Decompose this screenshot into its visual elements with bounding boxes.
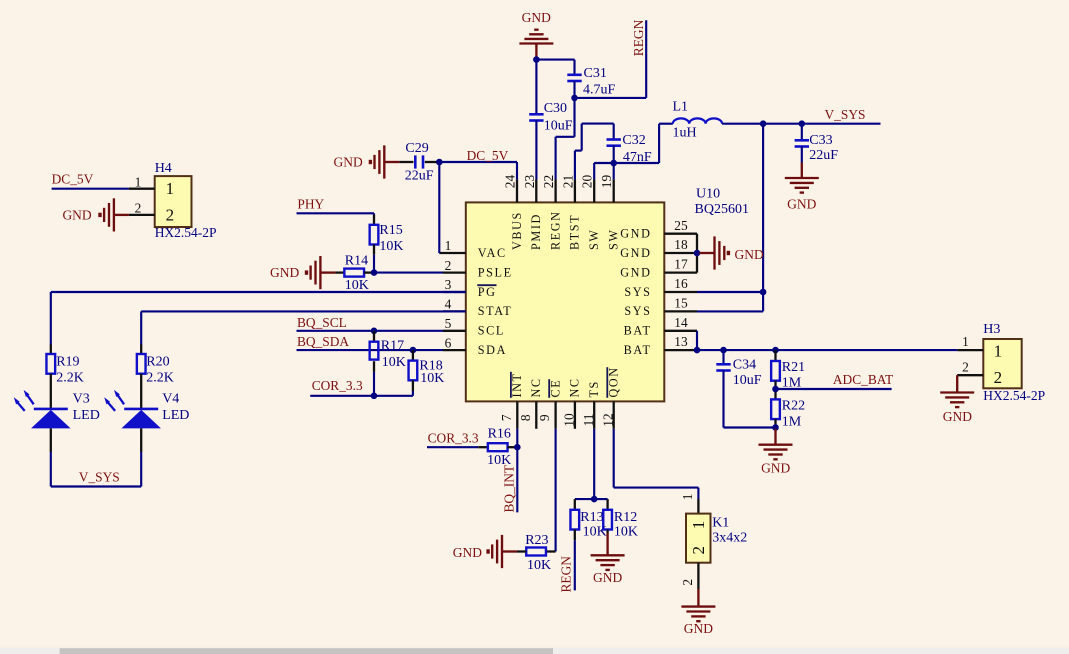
svg-text:GND: GND (943, 409, 972, 424)
svg-text:1: 1 (962, 334, 969, 349)
svg-text:GND: GND (620, 227, 651, 241)
svg-text:HX2.54-2P: HX2.54-2P (155, 225, 217, 240)
svg-text:1uH: 1uH (673, 126, 697, 141)
svg-text:2: 2 (445, 258, 452, 273)
svg-text:R17: R17 (381, 339, 404, 354)
svg-text:R22: R22 (782, 399, 805, 414)
svg-text:BQ_INT: BQ_INT (502, 465, 517, 513)
svg-text:LED: LED (73, 408, 100, 423)
svg-text:19: 19 (599, 175, 614, 189)
svg-text:R13: R13 (580, 510, 603, 525)
svg-text:20: 20 (580, 175, 595, 189)
svg-text:COR_3.3: COR_3.3 (312, 378, 363, 393)
svg-text:10K: 10K (527, 558, 551, 573)
svg-text:GND: GND (453, 545, 482, 560)
svg-text:GND: GND (62, 208, 91, 223)
svg-text:VBUS: VBUS (510, 211, 524, 250)
svg-text:22uF: 22uF (405, 169, 434, 184)
svg-text:2: 2 (680, 579, 695, 586)
svg-text:9: 9 (537, 414, 552, 421)
svg-text:SYS: SYS (624, 304, 651, 318)
svg-text:GND: GND (787, 197, 816, 212)
svg-text:BQ_SDA: BQ_SDA (297, 334, 349, 349)
svg-text:REGN: REGN (559, 556, 574, 593)
svg-text:BQ25601: BQ25601 (695, 202, 749, 217)
svg-text:SCL: SCL (478, 324, 505, 338)
svg-text:H3: H3 (983, 322, 1000, 337)
svg-text:22uF: 22uF (809, 148, 838, 163)
svg-text:DC_5V: DC_5V (467, 148, 509, 163)
svg-text:PSLE: PSLE (478, 265, 513, 279)
svg-text:C33: C33 (809, 133, 832, 148)
svg-text:SW: SW (607, 229, 621, 250)
svg-text:REGN: REGN (548, 210, 562, 250)
svg-text:GND: GND (593, 570, 622, 585)
svg-text:COR_3.3: COR_3.3 (428, 431, 479, 446)
svg-text:PMID: PMID (529, 213, 543, 250)
svg-text:ADC_BAT: ADC_BAT (833, 372, 893, 387)
svg-text:10K: 10K (614, 524, 638, 539)
svg-text:R14: R14 (345, 254, 368, 269)
svg-text:GND: GND (334, 154, 363, 169)
svg-text:24: 24 (503, 175, 518, 189)
svg-text:SYS: SYS (624, 285, 651, 299)
svg-text:R12: R12 (614, 510, 637, 525)
svg-text:2.2K: 2.2K (146, 371, 174, 386)
svg-text:3: 3 (445, 277, 452, 292)
svg-text:QON: QON (607, 366, 621, 397)
svg-text:R15: R15 (379, 223, 402, 238)
svg-text:C29: C29 (405, 141, 428, 156)
svg-text:R23: R23 (525, 533, 548, 548)
svg-text:C34: C34 (733, 357, 756, 372)
svg-text:1: 1 (680, 494, 695, 501)
svg-text:15: 15 (674, 296, 688, 311)
svg-text:14: 14 (674, 315, 688, 330)
svg-text:18: 18 (674, 237, 688, 252)
svg-text:2.2K: 2.2K (56, 371, 84, 386)
svg-text:5: 5 (445, 316, 452, 331)
svg-text:V_SYS: V_SYS (79, 469, 120, 484)
svg-text:GND: GND (620, 246, 651, 260)
svg-text:C30: C30 (544, 101, 567, 116)
svg-text:PHY: PHY (297, 197, 324, 212)
svg-text:1: 1 (135, 174, 142, 189)
svg-text:INT: INT (510, 372, 524, 397)
svg-text:25: 25 (674, 218, 688, 233)
svg-text:LED: LED (162, 408, 189, 423)
svg-text:SDA: SDA (478, 343, 507, 357)
svg-text:VAC: VAC (478, 246, 507, 260)
svg-text:GND: GND (522, 10, 551, 25)
svg-text:11: 11 (581, 414, 596, 427)
svg-text:10K: 10K (345, 278, 369, 293)
svg-text:GND: GND (761, 461, 790, 476)
svg-text:22: 22 (541, 175, 556, 188)
svg-text:10uF: 10uF (544, 119, 573, 134)
svg-text:3x4x2: 3x4x2 (712, 530, 747, 545)
svg-text:2: 2 (962, 360, 969, 375)
svg-text:R19: R19 (56, 354, 79, 369)
svg-text:10K: 10K (420, 371, 444, 386)
svg-text:BAT: BAT (624, 324, 652, 338)
svg-text:C32: C32 (622, 133, 645, 148)
svg-text:4: 4 (445, 297, 452, 312)
svg-text:K1: K1 (712, 516, 729, 531)
svg-text:23: 23 (522, 175, 537, 189)
svg-text:2: 2 (135, 201, 142, 216)
svg-text:10uF: 10uF (733, 373, 762, 388)
svg-text:GND: GND (620, 265, 651, 279)
svg-text:17: 17 (674, 257, 688, 272)
svg-text:HX2.54-2P: HX2.54-2P (983, 388, 1045, 403)
svg-text:1M: 1M (782, 414, 802, 429)
svg-text:4.7uF: 4.7uF (583, 82, 616, 97)
svg-text:21: 21 (560, 175, 575, 188)
svg-text:8: 8 (518, 414, 533, 421)
svg-text:1: 1 (445, 238, 452, 253)
svg-text:L1: L1 (673, 100, 689, 115)
svg-text:NC: NC (568, 377, 582, 397)
svg-text:10K: 10K (583, 524, 607, 539)
svg-text:16: 16 (674, 276, 688, 291)
svg-text:R20: R20 (146, 354, 169, 369)
svg-text:10: 10 (562, 413, 577, 427)
svg-text:1: 1 (166, 179, 175, 198)
svg-text:2: 2 (994, 368, 1003, 387)
svg-text:GND: GND (684, 621, 713, 636)
svg-text:R16: R16 (488, 427, 511, 442)
svg-text:C31: C31 (584, 66, 607, 81)
svg-text:12: 12 (601, 413, 616, 426)
svg-text:10K: 10K (382, 355, 406, 370)
svg-text:NC: NC (529, 377, 543, 397)
svg-text:TS: TS (587, 380, 601, 397)
svg-text:STAT: STAT (478, 304, 513, 318)
svg-text:BQ_SCL: BQ_SCL (297, 315, 347, 330)
svg-text:R21: R21 (782, 360, 805, 375)
svg-text:DC_5V: DC_5V (52, 171, 94, 186)
svg-text:1: 1 (994, 342, 1003, 361)
svg-text:13: 13 (674, 334, 688, 349)
svg-text:GND: GND (270, 265, 299, 280)
svg-text:SW: SW (587, 229, 601, 250)
svg-text:7: 7 (499, 414, 514, 421)
svg-text:V_SYS: V_SYS (825, 107, 866, 122)
svg-text:BTST: BTST (568, 214, 582, 250)
svg-text:V4: V4 (162, 391, 179, 406)
svg-text:2: 2 (166, 205, 175, 224)
svg-text:REGN: REGN (631, 19, 646, 56)
svg-text:GND: GND (735, 247, 764, 262)
svg-text:CE: CE (548, 379, 562, 398)
svg-text:6: 6 (445, 335, 452, 350)
svg-text:V3: V3 (73, 391, 90, 406)
svg-text:1: 1 (689, 521, 708, 530)
svg-text:BAT: BAT (624, 343, 652, 357)
svg-text:U10: U10 (696, 187, 720, 202)
svg-text:10K: 10K (379, 239, 403, 254)
svg-text:PG: PG (478, 285, 497, 299)
svg-text:H4: H4 (155, 161, 172, 176)
svg-text:2: 2 (689, 546, 708, 555)
